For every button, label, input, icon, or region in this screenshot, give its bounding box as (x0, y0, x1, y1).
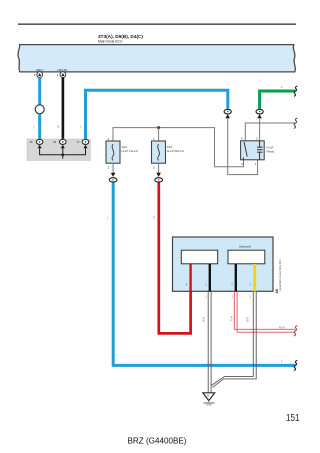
solenoid pin numbers (186, 283, 252, 287)
svg-text:H-LP RH-LO: H-LP RH-LO (167, 149, 185, 153)
solenoid coil LH inner box (181, 250, 217, 264)
wire G from off-page down to relay coil connector (260, 91, 296, 109)
internal bus of junction connector (40, 148, 86, 155)
fuse1 bottom connector (109, 163, 117, 182)
wire B inside solenoid box (209, 264, 211, 291)
wire R from fuse2 down around to solenoid (159, 183, 191, 334)
wire L from noise filter to junction connector (38, 114, 41, 139)
off-page arc (294, 118, 297, 128)
wire B from HRL1D down to junction connector (62, 78, 65, 140)
wire: relay pin3 output rail to fuses (113, 128, 244, 167)
noise filter circle (35, 105, 44, 114)
fuse H-LP RH-LO (152, 137, 185, 170)
svg-text:29: 29 (53, 140, 57, 144)
svg-text:151: 151 (286, 412, 300, 424)
off-page arc green (294, 86, 297, 96)
ECU header label (98, 34, 144, 44)
svg-text:W-B: W-B (246, 317, 250, 322)
wire B inside solenoid box 2 (235, 264, 237, 291)
connector marks below solenoid box (205, 295, 251, 299)
svg-text:B: B (58, 125, 60, 129)
wire: relay pin2 from green connector (259, 118, 261, 141)
wire L from HRLY down to noise filter (38, 78, 41, 105)
svg-text:R-W: R-W (230, 315, 234, 321)
bus bar top rule (18, 23, 296, 25)
off-page arc red (294, 326, 297, 336)
svg-text:H-LP LH-LO: H-LP LH-LO (122, 149, 139, 153)
wire: relay pin1 to connector A (228, 118, 258, 174)
solenoid coil RH inner box (228, 250, 265, 264)
svg-text:17: 17 (77, 140, 81, 144)
svg-text:Main Body ECU: Main Body ECU (98, 39, 123, 44)
wire R inside solenoid box (189, 264, 191, 291)
wire W-B ground from solenoid pin (208, 292, 211, 393)
svg-text:Relay: Relay (267, 150, 275, 154)
svg-text:Solenoid: Solenoid (239, 245, 251, 249)
svg-text:W-B: W-B (202, 317, 206, 322)
relay H-LP (241, 137, 275, 166)
svg-text:A8: A8 (275, 289, 279, 293)
wire L from fuse1 down and to off-page right (113, 183, 295, 366)
solenoid box headlight assembly RH (173, 237, 274, 291)
pin HRL1D (57, 68, 68, 78)
label headlight assembly RH (vertical) (275, 259, 282, 293)
fuse2 bottom connector (155, 163, 163, 182)
wire L junction connector up and over to relay control connector (86, 90, 228, 139)
svg-text:35: 35 (30, 140, 34, 144)
svg-text:BRZ (G4400BE): BRZ (G4400BE) (128, 437, 187, 446)
wire stub to fuse2 (158, 128, 160, 141)
wire W-B 2 from yellow pin to ground (211, 292, 256, 387)
wire R-W thin pair to off-page (234, 292, 295, 332)
pin HRLY (34, 68, 44, 78)
wire: relay pin5 to off-page (245, 123, 295, 141)
connector pair on wire L (oval + arrow) (224, 109, 231, 118)
junction node (157, 126, 160, 129)
svg-text:Headlight Assembly RH: Headlight Assembly RH (278, 259, 282, 291)
junction connector block (27, 139, 91, 161)
svg-text:R-W: R-W (279, 325, 285, 329)
connector pair on wire G (256, 109, 263, 118)
fuse H-LP LH-LO (106, 137, 139, 170)
wire Y inside solenoid box (253, 264, 256, 291)
off-page arc cyan (294, 360, 297, 370)
ECU block 4T3(A) D9(B) D4(C) Main Body ECU (18, 45, 295, 72)
ground symbol (203, 393, 215, 405)
svg-text:R: R (153, 216, 155, 220)
